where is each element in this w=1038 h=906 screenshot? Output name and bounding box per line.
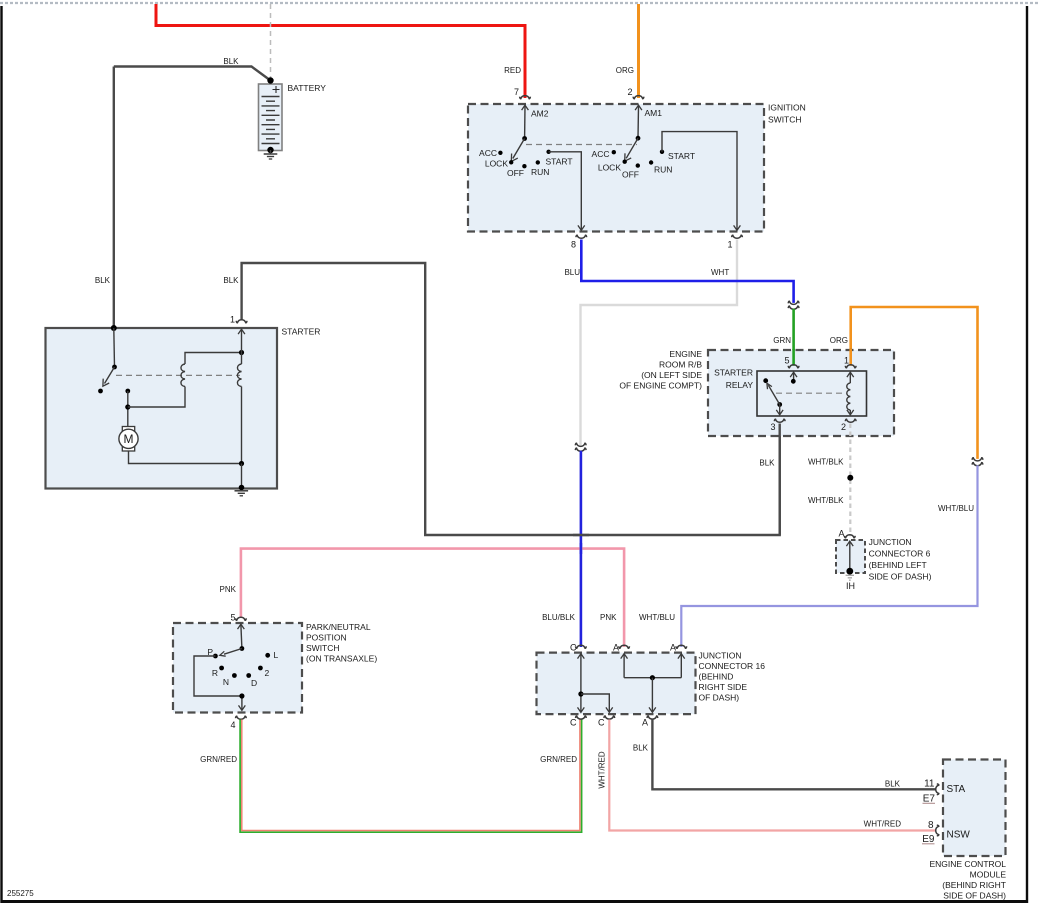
motor M starter <box>119 427 138 452</box>
ignition switch 1 position contacts <box>498 150 551 169</box>
svg-text:N: N <box>223 677 229 687</box>
svg-text:D: D <box>251 678 257 688</box>
svg-text:OF DASH): OF DASH) <box>699 693 740 703</box>
pin C connector JC16 bottom left <box>576 716 587 719</box>
wire ignition START2 to pin 1 <box>662 132 740 231</box>
pin 2 connector relay <box>845 419 856 422</box>
JC16 internal A bus <box>621 654 685 713</box>
pin 4 connector PNP <box>236 716 247 719</box>
wire PNP P-contact to pin 4 <box>194 656 245 710</box>
wire BLU/BLK over PNK crossing <box>580 543 583 554</box>
svg-text:SIDE OF DASH): SIDE OF DASH) <box>943 891 1006 901</box>
pin C connector JC16 top <box>576 645 587 648</box>
svg-text:M: M <box>124 432 134 446</box>
svg-text:GRN: GRN <box>773 336 791 345</box>
node starter motor contact <box>125 389 130 394</box>
pin 11 connector ECM <box>936 784 939 795</box>
svg-text:SWITCH: SWITCH <box>768 115 802 125</box>
svg-text:RIGHT SIDE: RIGHT SIDE <box>699 682 748 692</box>
wire ORG to ignition pin 2 <box>637 4 640 98</box>
svg-text:WHT/BLK: WHT/BLK <box>808 496 844 505</box>
svg-text:RUN: RUN <box>531 167 549 177</box>
svg-text:WHT/RED: WHT/RED <box>864 820 902 829</box>
svg-text:STARTER: STARTER <box>282 327 321 337</box>
svg-text:START: START <box>668 151 695 161</box>
svg-text:BLK: BLK <box>759 459 775 468</box>
starter box <box>46 328 278 489</box>
svg-text:AM2: AM2 <box>531 109 549 119</box>
svg-text:8: 8 <box>928 820 934 831</box>
svg-text:START: START <box>546 157 573 167</box>
wire BLU/BLK splice to junction connector 16 pin C <box>580 451 583 647</box>
pin A connector JC16 top right <box>676 645 687 648</box>
label ENGINE ROOM R/B (ON LEFT SIDE OF ENGINE COMPT) <box>619 349 702 391</box>
svg-text:OFF: OFF <box>507 168 524 178</box>
svg-text:2: 2 <box>627 87 632 97</box>
svg-text:8: 8 <box>571 240 576 250</box>
pin 5 connector relay <box>788 365 799 368</box>
svg-text:WHT: WHT <box>711 268 729 277</box>
svg-text:OFF: OFF <box>622 170 639 180</box>
svg-text:OF ENGINE COMPT): OF ENGINE COMPT) <box>619 381 702 391</box>
pin 5 connector PNP <box>236 617 247 620</box>
pin 1 connector starter <box>236 320 247 323</box>
wire junction to starter ground <box>241 464 243 488</box>
svg-text:255275: 255275 <box>7 889 34 898</box>
node battery negative terminal <box>267 147 273 153</box>
svg-text:1: 1 <box>727 240 732 250</box>
svg-text:2: 2 <box>265 668 270 678</box>
svg-text:4: 4 <box>230 720 235 730</box>
svg-text:LOCK: LOCK <box>598 163 621 173</box>
svg-text:11: 11 <box>924 779 935 790</box>
svg-text:WHT/BLU: WHT/BLU <box>639 613 675 622</box>
PNP position contacts P R N D 2 L <box>213 653 270 678</box>
wire PNK junction connector16 pinA to PNP pin5 <box>241 549 624 647</box>
svg-text:ENGINE: ENGINE <box>669 349 702 359</box>
node junction to hold-in winding <box>125 404 130 409</box>
svg-text:JUNCTION: JUNCTION <box>699 651 742 661</box>
svg-text:RUN: RUN <box>654 165 672 175</box>
wire GRN splice to relay pin 5 <box>792 309 795 366</box>
svg-text:1: 1 <box>230 315 235 325</box>
svg-text:WHT/RED: WHT/RED <box>598 751 607 789</box>
svg-text:CONNECTOR 16: CONNECTOR 16 <box>699 661 766 671</box>
wire ORG inside R/B <box>849 349 852 366</box>
wire BLU ignition pin8 to splice <box>581 240 793 303</box>
svg-text:C: C <box>598 718 605 728</box>
svg-text:BLK: BLK <box>95 276 111 285</box>
pin A connector junction connector 6 <box>844 535 855 538</box>
svg-text:ENGINE CONTROL: ENGINE CONTROL <box>929 859 1006 869</box>
svg-text:5: 5 <box>230 613 235 623</box>
battery B1 <box>259 84 283 151</box>
svg-text:RELAY: RELAY <box>726 380 754 390</box>
wire ignition START1 to pin 8 <box>549 152 585 231</box>
svg-text:BLK: BLK <box>223 276 239 285</box>
svg-text:ROOM R/B: ROOM R/B <box>659 360 702 370</box>
pin 7 connector ignition <box>520 96 531 99</box>
svg-text:IH: IH <box>846 581 855 591</box>
svg-text:7: 7 <box>514 87 519 97</box>
svg-text:STARTER: STARTER <box>714 368 753 378</box>
park/neutral position switch box <box>173 623 302 713</box>
junction connector 6 box <box>836 540 865 573</box>
JC16 internal C bus <box>578 654 613 713</box>
node starter ground terminal <box>239 485 245 491</box>
svg-text:(BEHIND: (BEHIND <box>699 672 734 682</box>
ignition switch 1 wiper <box>511 136 527 161</box>
label STARTER RELAY <box>714 368 753 391</box>
svg-text:ACC: ACC <box>592 149 610 159</box>
svg-text:WHT/BLK: WHT/BLK <box>808 458 844 467</box>
svg-text:IGNITION: IGNITION <box>768 103 806 113</box>
node battery positive terminal <box>267 77 273 83</box>
relay linkage (dashed) <box>776 392 845 394</box>
label E7 (underlined) <box>923 794 936 805</box>
svg-text:BLU/BLK: BLU/BLK <box>542 613 576 622</box>
pin 1 arrow inside starter <box>238 329 245 352</box>
wire BLK bus over blue crossing <box>573 534 589 536</box>
pin A connector JC16 bottom <box>647 716 658 719</box>
svg-text:R: R <box>212 668 218 678</box>
svg-text:CONNECTOR 6: CONNECTOR 6 <box>869 549 931 559</box>
svg-text:C: C <box>570 643 577 653</box>
svg-text:BLK: BLK <box>885 780 901 789</box>
node WHT/BLK junction <box>847 475 853 481</box>
svg-text:SIDE OF DASH): SIDE OF DASH) <box>869 572 932 582</box>
svg-text:GRN/RED: GRN/RED <box>200 755 237 764</box>
wire BLK battery positive <box>114 67 271 81</box>
wire junction to left coil bottom <box>128 387 185 408</box>
wire WHT/BLK relay pin2 to junction connector 6 <box>849 424 851 537</box>
svg-text:PNK: PNK <box>220 585 237 594</box>
wire GRN inside R/B <box>792 349 795 366</box>
svg-text:STA: STA <box>947 784 966 795</box>
svg-text:A: A <box>670 643 676 653</box>
starter hold-in winding (right coil) <box>237 353 241 464</box>
wire GRN/RED PNP pin4 to junction connector16 pin C <box>240 720 581 833</box>
page border top (dashed grey) <box>0 2 1038 4</box>
wire BLK battery to starter <box>113 67 115 329</box>
ignition ganged linkage (dashed) <box>526 144 637 146</box>
wire RED battery to ignition pin 7 <box>156 4 525 98</box>
svg-text:JUNCTION: JUNCTION <box>869 537 912 547</box>
label IGNITION SWITCH <box>768 103 806 125</box>
relay wiper to pin 3 arrow <box>776 405 783 415</box>
junction connector 16 box <box>537 653 696 715</box>
label JUNCTION CONNECTOR 16 (BEHIND RIGHT SIDE OF DASH) <box>699 651 766 703</box>
splice connector WHT-BLUBLK <box>575 443 586 451</box>
svg-text:BLK: BLK <box>633 744 649 753</box>
pin C connector JC16 bottom middle <box>604 716 615 719</box>
label ENGINE CONTROL MODULE (BEHIND RIGHT SIDE OF DASH) <box>929 859 1006 901</box>
starter solenoid linkage (dashed) <box>116 374 240 376</box>
pin 1 connector relay <box>845 365 856 368</box>
node motor/coil ground junction <box>239 461 244 466</box>
svg-text:MODULE: MODULE <box>970 870 1007 880</box>
ground starter <box>235 491 249 496</box>
JC6 internal arrow and ground terminal <box>846 541 854 580</box>
svg-text:GRN/RED: GRN/RED <box>540 755 577 764</box>
wire BLK starter pin1 to starter relay pin3 <box>242 263 780 535</box>
svg-text:PARK/NEUTRAL: PARK/NEUTRAL <box>306 622 371 632</box>
labels P R N D 2 L <box>207 647 278 688</box>
svg-text:BLU: BLU <box>564 268 580 277</box>
svg-text:SWITCH: SWITCH <box>306 643 340 653</box>
relay coil <box>847 372 854 415</box>
svg-text:(ON LEFT SIDE: (ON LEFT SIDE <box>641 370 702 380</box>
label PARK/NEUTRAL POSITION SWITCH (ON TRANSAXLE) <box>306 622 377 664</box>
svg-text:(BEHIND RIGHT: (BEHIND RIGHT <box>942 880 1006 890</box>
labels ACC LOCK OFF RUN START (switch 2) <box>592 149 696 179</box>
wire motor to ground bus <box>129 451 242 464</box>
wire BLK JC16 to ECM pin 11 <box>652 720 935 790</box>
pin A connector JC16 top middle <box>619 645 630 648</box>
ignition switch AM1 input arrow <box>635 105 642 138</box>
svg-text:2: 2 <box>841 422 846 432</box>
labels ACC LOCK OFF RUN START (switch 1) <box>479 148 573 178</box>
node starter battery input <box>111 325 117 331</box>
ignition switch 2 wiper <box>625 136 641 161</box>
svg-text:NSW: NSW <box>947 830 971 841</box>
svg-text:5: 5 <box>784 356 789 366</box>
starter relay inner box <box>757 371 867 416</box>
pin 1 connector ignition <box>732 235 743 238</box>
svg-text:ORG: ORG <box>830 336 848 345</box>
page border right <box>1026 6 1028 903</box>
svg-text:ORG: ORG <box>616 66 634 75</box>
svg-text:A: A <box>642 718 648 728</box>
page border bottom <box>1 900 1029 903</box>
relay pin5 arrow and contact <box>790 372 797 384</box>
page border left <box>0 6 2 903</box>
svg-text:L: L <box>274 650 279 660</box>
starter solenoid contact switch <box>98 328 117 393</box>
wire WHT ignition pin1 to splice <box>581 240 738 446</box>
svg-text:AM1: AM1 <box>645 108 663 118</box>
pin 8 connector ignition <box>576 235 587 238</box>
wire contact to motor <box>127 391 129 427</box>
node pin1 line top junction <box>239 350 244 355</box>
pin 8 connector ECM <box>936 825 939 836</box>
PNP input arrow and wiper <box>220 624 245 656</box>
wire WHT/BLU splice to junction connector 16 pin A <box>681 465 977 647</box>
node PNP output junction <box>239 693 244 698</box>
svg-text:LOCK: LOCK <box>485 159 508 169</box>
svg-text:RED: RED <box>504 66 521 75</box>
wire BLK relay pin3 down (joins starter run) <box>779 424 781 536</box>
svg-text:BATTERY: BATTERY <box>288 83 327 93</box>
svg-text:A: A <box>613 643 619 653</box>
label E9 (underlined) <box>922 834 935 845</box>
engine room R/B box <box>708 350 894 436</box>
pin 2 connector ignition <box>633 96 644 99</box>
svg-text:PNK: PNK <box>600 613 617 622</box>
svg-text:3: 3 <box>770 422 775 432</box>
svg-text:BLK: BLK <box>223 57 239 66</box>
wire WHT/RED JC16 to ECM pin 8 <box>609 720 935 831</box>
ignition switch AM2 input arrow <box>522 105 529 138</box>
ignition switch 2 position contacts <box>612 150 665 168</box>
svg-text:(ON TRANSAXLE): (ON TRANSAXLE) <box>306 654 377 664</box>
svg-text:A: A <box>838 529 844 539</box>
starter pull-in winding (left coil) <box>181 353 242 387</box>
relay switch wiper <box>763 378 782 407</box>
svg-text:WHT/BLU: WHT/BLU <box>938 504 974 513</box>
ground battery <box>264 150 278 159</box>
svg-text:(BEHIND LEFT: (BEHIND LEFT <box>869 560 927 570</box>
dashed stub above battery <box>270 4 272 80</box>
splice connector ORG-WHTBLU <box>972 458 983 466</box>
splice connector BLU-GRN <box>788 301 799 309</box>
svg-text:ACC: ACC <box>479 148 497 158</box>
pin 3 connector relay <box>774 419 785 422</box>
wire ORG relay pin1 to splice (right) <box>851 307 978 459</box>
engine control module box <box>943 760 1006 857</box>
label JUNCTION CONNECTOR 6 (BEHIND LEFT SIDE OF DASH) <box>869 537 932 582</box>
ignition switch box <box>468 104 764 232</box>
svg-text:C: C <box>570 718 577 728</box>
svg-text:1: 1 <box>844 356 849 366</box>
svg-text:POSITION: POSITION <box>306 633 347 643</box>
